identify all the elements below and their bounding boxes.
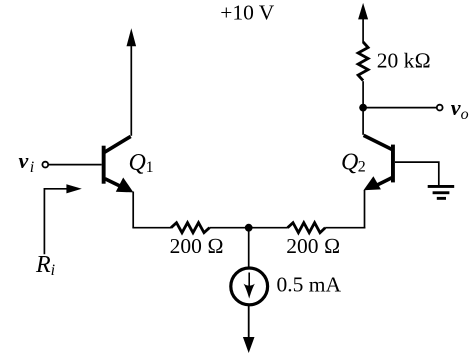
resistor 200 ohm left — [171, 223, 210, 233]
input terminal circle vi — [42, 162, 48, 168]
current source arrow — [244, 273, 255, 299]
transistor Q2 collector lead — [364, 135, 392, 149]
svg-text:v: v — [19, 148, 29, 173]
label vi — [19, 148, 35, 176]
svg-text:0.5 mA: 0.5 mA — [277, 273, 342, 297]
transistor Q1 emitter lead — [105, 179, 123, 188]
wire resistor to collector Q2 — [362, 81, 364, 135]
label Q1 — [129, 150, 154, 176]
label Q2 — [341, 149, 366, 175]
wire supply to resistor 20k — [362, 17, 364, 43]
arrowhead supply right — [358, 3, 368, 20]
label 0.5 mA — [277, 273, 342, 297]
svg-text:Q: Q — [129, 150, 146, 176]
svg-text:1: 1 — [146, 159, 154, 176]
svg-text:o: o — [461, 106, 469, 123]
wire base Q1 — [49, 164, 102, 166]
node dot vo — [359, 104, 367, 112]
svg-text:R: R — [35, 252, 51, 278]
label 200 ohm right — [286, 234, 340, 258]
wire rail left segment — [132, 227, 171, 229]
wire rail right segment — [325, 227, 365, 229]
wire node to output terminal — [363, 107, 436, 109]
svg-text:200 Ω: 200 Ω — [286, 234, 340, 258]
resistor 200 ohm right — [288, 223, 326, 233]
label +10 V supply — [220, 1, 275, 25]
transistor Q1 base bar — [102, 146, 106, 184]
output terminal circle vo — [437, 105, 443, 111]
svg-text:i: i — [51, 262, 55, 279]
Ri arrowhead — [66, 184, 81, 193]
wire emitter Q2 down to rail — [364, 190, 366, 229]
resistor 20 kohm — [358, 42, 368, 81]
transistor Q2 emitter lead — [374, 178, 392, 187]
transistor Q2 base bar — [391, 145, 395, 183]
wire collector Q1 up to supply arrow — [130, 44, 132, 136]
arrowhead bottom — [243, 337, 255, 353]
svg-text:v: v — [451, 95, 461, 120]
label Ri — [35, 252, 55, 279]
label 20 kohm — [377, 49, 431, 73]
svg-text:Q: Q — [341, 149, 358, 175]
transistor Q1 emitter arrowhead — [116, 178, 134, 193]
svg-text:2: 2 — [358, 159, 366, 176]
node junction dot — [245, 224, 253, 232]
transistor Q2 emitter arrowhead — [364, 176, 381, 190]
ground symbol — [428, 185, 455, 200]
svg-text:200 Ω: 200 Ω — [170, 234, 224, 258]
wire current source to bottom arrow — [248, 305, 250, 339]
svg-text:+10 V: +10 V — [220, 1, 275, 25]
wire emitter Q1 down to rail — [132, 192, 134, 228]
current source circle — [231, 268, 268, 305]
wire node to current source — [248, 228, 250, 268]
transistor Q1 collector lead — [104, 136, 131, 152]
Ri arrow wire — [44, 189, 70, 255]
wire rail middle segment — [210, 227, 288, 229]
svg-text:i: i — [30, 159, 34, 176]
wire base Q2 to ground — [395, 162, 439, 185]
arrowhead supply left — [127, 28, 137, 46]
svg-text:20 kΩ: 20 kΩ — [377, 49, 431, 73]
label 200 ohm left — [170, 234, 224, 258]
label vo — [451, 95, 469, 123]
